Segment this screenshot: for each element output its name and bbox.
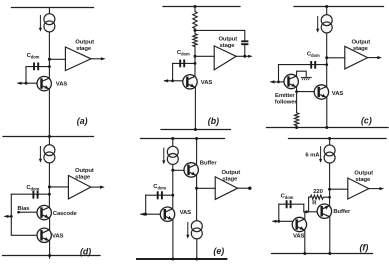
node: cascode collector junction (d) [48,185,51,188]
wire: output (f) [369,188,381,190]
wire: main vertical (d) [48,137,50,211]
node: emitter to output stage junction (e) [195,187,198,190]
svg-text:220: 220 [313,189,323,195]
wire: buffer lower lead (f) [329,217,331,254]
capacitor Cdom (c) [279,64,327,66]
svg-text:Cdom: Cdom [281,194,294,200]
wire: bias to cascode base (d) [19,211,37,213]
node: Cdom to collector (a) [48,65,51,68]
wire: feedback left vertical (d) [11,194,37,235]
transistor VAS (d) [37,228,51,242]
wire to output stage (d) [49,186,68,188]
wire: bootstrap feed (b) [195,30,245,40]
svg-text:follower: follower [275,100,298,106]
capacitor Cdom (e) [146,194,173,196]
node: Cdom to collector (d) [48,193,51,196]
svg-text:Cascode: Cascode [53,211,78,217]
svg-text:stage: stage [75,175,91,181]
input wire (e) [141,213,161,215]
wire: collector node to buffer base (f) [304,211,317,213]
svg-text:Buffer: Buffer [333,209,351,215]
svg-text:Output: Output [221,170,240,176]
positive supply rail (c) [294,6,384,8]
wire: buffer emitter (e) [196,175,198,221]
op-amp output stage (e) [215,177,237,200]
node: emitter to rail (c) [325,126,328,129]
wire to output stage (b) [195,55,214,57]
svg-text:Cdom: Cdom [177,50,190,56]
svg-text:VAS: VAS [56,81,68,87]
wire: output (e) [238,187,249,189]
node: output node junction (f) [328,188,331,191]
node: Cdom to collector (e) [171,194,174,197]
transistor VAS (f) [292,217,306,231]
node: base junction (b) [171,79,174,82]
capacitor Cdom (d) [11,193,49,195]
transistor cascode (d) [37,205,51,219]
output terminal dot (e) [248,187,251,190]
svg-text:Cdom: Cdom [153,184,166,190]
svg-text:stage: stage [220,43,236,49]
capacitor Cdom (b) [173,62,195,64]
wire: left vertical (e) [172,139,174,209]
node: VAS collector junction (f) [305,210,308,213]
transistor VAS (a) [37,76,51,90]
positive supply rail (e) [141,138,225,140]
op-amp output stage (b) [214,46,236,70]
input wire (b) [165,80,183,82]
capacitor Cdom (f) [279,203,304,205]
transistor buffer (f) [317,204,331,218]
svg-text:VAS: VAS [52,234,64,240]
input arrowhead (d) [4,215,9,218]
wire: main vertical current source to VAS collector (c) [326,7,328,89]
node: Cdom to collector (c) [325,63,328,66]
input wire (f) [273,220,292,222]
resistor R1 (b) [193,7,197,31]
output arrowhead (c) [377,56,382,59]
wire to output stage (f) [330,188,348,190]
op-amp output stage (a) [65,47,91,71]
node: base junction (a) [25,82,28,85]
input wire (c) [271,81,284,83]
node: cap to output junction (b) [243,55,246,58]
current source I1 (a) [39,14,55,32]
svg-text:Output: Output [75,39,94,45]
current source I1 (e) [162,146,178,164]
output arrowhead (f) [380,187,385,190]
negative rail (d) [3,255,101,257]
svg-text:Bias: Bias [17,206,30,212]
transistor VAS (e) [160,207,174,221]
node: rail to current source (e) [171,137,174,140]
svg-text:VAS: VAS [332,91,344,97]
positive supply rail (b) [163,6,240,8]
svg-text:R: R [312,201,317,207]
svg-text:Output: Output [75,168,94,174]
wire: main vertical (current source / VAS collector / emitter) (a) [48,8,50,137]
transistor emitter follower (c) [284,74,298,88]
node: rail junction (d) [48,135,51,138]
wire: output (c) [368,57,379,59]
node: emitter to rail (b) [194,128,197,131]
op-amp output stage (f) [348,178,369,199]
resistor R2 (b) [193,30,197,76]
current source I2 (e) [186,221,202,239]
svg-text:Cdom: Cdom [307,52,320,58]
svg-text:stage: stage [353,46,369,52]
input arrowhead (c) [270,80,275,83]
wire: Cdom to input (c) [278,65,280,82]
transistor VAS (b) [183,75,197,89]
wire: resistor left drop (f) [308,197,310,212]
shared rail between (a) and (d) [3,136,94,138]
node: VAS collector junction (c) [325,56,328,59]
svg-text:VAS: VAS [201,80,213,86]
wire: buffer collector from rail (e) [196,139,198,166]
svg-text:Cdom: Cdom [26,185,39,191]
svg-text:(d): (d) [80,247,91,257]
wire: I2 to rail (e) [196,239,198,259]
op-amp output stage (c) [345,46,368,69]
node: buffer base junction (e) [171,169,174,172]
input arrowhead (f) [272,220,277,223]
wire: VAS emitter (c) [326,97,328,127]
node: VAS emitter to rail (f) [303,252,306,255]
wire: main vertical (f) [329,139,331,207]
wire: VAS emitter (e) [172,219,174,259]
node: input junction (f) [277,220,280,223]
wire to output stage (a) [49,58,65,60]
input arrowhead (e) [140,213,145,216]
wire: Cdom to base (b) [172,63,174,80]
svg-text:stage: stage [222,177,238,183]
wire: Cdom right drop to collector node (f) [303,204,305,212]
node: rail junction (c) [325,5,328,8]
node: EF emitter junction (c) [295,90,298,93]
node: VAS collector junction (b) [194,55,197,58]
node: VAS collector junction (a) [48,58,51,61]
svg-text:VAS: VAS [293,233,305,239]
node: Cdom to collector (b) [194,62,197,65]
capacitor Cdom (a) [26,66,49,68]
capacitor C1 bootstrap (b) [241,41,248,44]
wire: output (a) [91,58,102,60]
node: rail to R1 (b) [194,5,197,8]
output arrowhead (b) [248,55,252,58]
positive supply rail (a) [12,7,94,9]
node: rail to buffer collector (e) [195,137,198,140]
output arrowhead (d) [100,186,105,189]
svg-text:(b): (b) [208,116,219,126]
node: resistor to rail (c) [295,126,298,129]
resistor R1 emitter (c) [294,92,298,128]
svg-text:6 mA: 6 mA [305,152,320,158]
input arrowhead (a) [17,82,22,85]
negative rail (c) [267,127,389,129]
op-amp output stage (d) [68,175,90,199]
current source I1 (d) [39,145,55,163]
current source I1 (c) [316,15,332,33]
transistor VAS (c) [314,85,328,99]
supply hatch symbol (c) [301,76,311,78]
svg-text:(e): (e) [213,246,224,256]
svg-text:stage: stage [355,177,371,183]
negative rail (b) [161,129,231,131]
svg-text:(f): (f) [360,243,369,253]
input wire (a) [18,82,37,84]
wire: Cdom to base (a) [25,67,27,84]
svg-text:Cdom: Cdom [27,53,40,59]
transistor buffer (e) [184,163,198,177]
wire: VAS emitter (f) [304,230,306,254]
output arrowhead (a) [101,57,106,60]
wire: VAS emitter (b) [194,87,196,129]
svg-text:stage: stage [76,46,92,52]
svg-text:(c): (c) [361,116,372,126]
node: base junction (e) [144,213,147,216]
input wire (d) [5,215,11,217]
wire: VAS collector stub (f) [304,212,306,220]
wire: to buffer base (e) [173,169,184,171]
negative rail (e) [137,258,226,260]
wire: Cdom to base (f) [278,204,280,221]
negative rail (f) [272,253,373,255]
wire to output stage (c) [327,57,345,59]
wire: cap to output (b) [244,45,246,56]
node: buffer to rail (f) [328,252,331,255]
node: input junction (d) [10,215,13,218]
wire: Cdom to base (e) [145,195,147,214]
node: I2 to rail (e) [195,258,198,261]
svg-text:Output: Output [351,39,370,45]
positive supply rail (f) [289,138,387,140]
node: input junction (c) [277,81,280,84]
node: VAS emitter to rail (e) [171,258,174,261]
svg-text:Buffer: Buffer [200,161,218,167]
node: resistor to main line junction (f) [328,196,331,199]
wire: cascode emitter to VAS collector (d) [49,218,51,231]
wire: EF collector hook (c) [297,71,307,77]
node: emitter to rail (d) [48,254,51,257]
node: bias terminal (d) [17,211,20,214]
resistor R 220 (f) [309,195,330,199]
svg-text:Output: Output [354,170,373,176]
svg-text:Emitter: Emitter [275,93,295,99]
node: rail junction (f) [328,137,331,140]
wire: EF emitter to VAS base (c) [297,87,315,92]
wire to output stage (e) [197,187,216,189]
wire: VAS emitter (d) [49,241,51,259]
wire: output (b) [236,55,249,57]
input arrowhead (b) [163,79,168,82]
current source I1 6mA (f) [319,145,335,163]
svg-text:Output: Output [218,36,237,42]
wire: output (d) [91,186,102,188]
svg-text:(a): (a) [77,116,88,126]
node: bootstrap junction (b) [194,29,197,32]
svg-text:VAS: VAS [180,210,192,216]
